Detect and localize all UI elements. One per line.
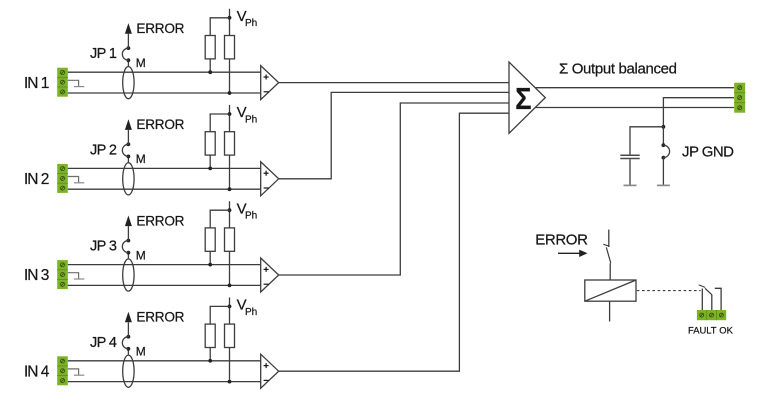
svg-text:M: M: [136, 152, 146, 166]
svg-text:M: M: [136, 56, 146, 70]
wire summing amp output - (bottom, balanced): [535, 107, 734, 109]
wire op-amp 1 output to summing amp input 1: [279, 82, 509, 84]
node V_Ph junction (channel 3): [228, 208, 232, 212]
terminal block IN 3 (3-pole, green): [57, 260, 68, 289]
ERROR arrow (channel 4): [125, 312, 132, 323]
jumper JP 3 (open link, arc + pins): [122, 239, 130, 255]
wire right resistor to IN 2- wire: [229, 155, 231, 189]
pin - (inverting, channel 3): [264, 283, 269, 285]
svg-text:JP 4: JP 4: [90, 335, 117, 351]
terminal block IN 2 (3-pole, green): [57, 164, 68, 193]
wire left resistor to IN 1+ wire: [209, 59, 211, 72]
capacitor (output ground coupling): [620, 155, 639, 158]
wire capacitor to ground: [629, 159, 631, 185]
svg-text:ERROR: ERROR: [136, 117, 184, 132]
svg-text:JP 2: JP 2: [90, 142, 117, 158]
ground (signal ground on IN 4 middle pin): [68, 369, 85, 375]
svg-text:OK: OK: [719, 325, 733, 336]
resistor (phantom feed, channel 4, right): [225, 324, 235, 347]
wire IN 1+ (top) from terminal to op-amp: [68, 71, 261, 73]
wire right resistor to IN 4- wire: [229, 348, 231, 382]
ERROR arrow (relay, pointing right): [558, 250, 588, 257]
svg-text:JP GND: JP GND: [682, 144, 734, 161]
pin - (inverting, channel 4): [264, 379, 269, 381]
wire jumper JP 2 to choke: [127, 156, 129, 162]
wire jumper JP 1 to choke: [127, 60, 129, 66]
wire IN 3- (bottom) from terminal to op-amp: [68, 284, 261, 286]
wire V_Ph to left resistor (channel 3): [210, 210, 229, 228]
wire mechanical link (dashed, relay to contact): [637, 290, 701, 292]
op-amp buffer (channel 2): [261, 162, 279, 196]
resistor (phantom feed, channel 2, left): [205, 132, 215, 155]
pin - (inverting, channel 1): [264, 91, 269, 93]
ground (signal ground on IN 3 middle pin): [68, 273, 85, 279]
wire V_Ph to left resistor (channel 2): [210, 114, 229, 132]
svg-text:JP 3: JP 3: [90, 239, 117, 255]
node V_Ph junction (channel 2): [228, 112, 232, 116]
wire IN 1- (bottom) from terminal to op-amp: [68, 92, 261, 94]
svg-text:Ph: Ph: [245, 211, 257, 222]
node junction right resistor / IN 2-: [228, 187, 232, 191]
svg-text:M: M: [136, 248, 146, 262]
ERROR arrow (channel 1): [125, 23, 132, 34]
svg-text:Σ: Σ: [515, 82, 531, 116]
label V_Ph (channel 1): [237, 8, 258, 29]
net V_Ph vertical (channel 2): [229, 105, 231, 132]
transformer M1 (longitudinal choke ellipse): [123, 67, 134, 99]
svg-text:JP 1: JP 1: [90, 46, 117, 62]
node junction left resistor / IN 1+: [208, 70, 212, 74]
svg-text:IN 2: IN 2: [24, 171, 49, 188]
relay K1 (coil box with diagonal): [585, 280, 636, 301]
svg-text:ERROR: ERROR: [136, 213, 184, 228]
wire left resistor to IN 2+ wire: [209, 155, 211, 168]
svg-text:ERROR: ERROR: [136, 310, 184, 325]
svg-text:IN 1: IN 1: [24, 75, 49, 92]
terminal block IN 4 (3-pole, green): [57, 356, 68, 385]
wire IN 4- (bottom) from terminal to op-amp: [68, 381, 261, 383]
resistor (phantom feed, channel 1, left): [205, 36, 215, 59]
wire junction to jumper JP GND: [662, 127, 664, 146]
terminal block FAULT/OK (3-pole, green, horizontal): [697, 310, 726, 320]
net V_Ph vertical (channel 3): [229, 201, 231, 228]
wire op-amp 3 output to summing amp input 3: [279, 103, 509, 275]
wire junction to capacitor: [630, 127, 663, 155]
svg-text:FAULT: FAULT: [688, 325, 717, 336]
label V_Ph (channel 2): [237, 104, 258, 125]
wire switch to relay coil: [609, 263, 611, 280]
resistor (phantom feed, channel 1, right): [225, 36, 235, 59]
op-amp buffer (channel 3): [261, 258, 279, 292]
wire V_Ph to left resistor (channel 1): [210, 18, 229, 36]
wire op-amp 4 output to summing amp input 4: [279, 113, 509, 371]
wire relay drive (top): [608, 230, 610, 247]
transformer M2 (longitudinal choke ellipse): [123, 163, 134, 195]
wire jumper JP 4 to ERROR arrow: [127, 322, 129, 336]
wire jumper JP 2 to ERROR arrow: [127, 130, 129, 144]
wire summing amp output + (top, balanced): [535, 87, 734, 89]
svg-text:IN 3: IN 3: [24, 267, 49, 284]
pin + (non-inverting, channel 4): [264, 365, 269, 367]
node junction left resistor / IN 3+: [208, 263, 212, 267]
node junction right resistor / IN 3-: [228, 284, 232, 288]
relay changeover contact (FAULT/OK): [699, 285, 721, 310]
node junction left resistor / IN 2+: [208, 167, 212, 171]
ground (signal ground on IN 1 middle pin): [68, 80, 85, 86]
wire left resistor to IN 4+ wire: [209, 348, 211, 361]
node junction capacitor / JP GND: [662, 125, 666, 129]
label V_Ph (channel 3): [237, 200, 258, 221]
wire left resistor to IN 3+ wire: [209, 251, 211, 264]
wire jumper JP 3 to choke: [127, 253, 129, 259]
node junction right resistor / IN 4-: [228, 380, 232, 384]
svg-text:IN 4: IN 4: [24, 363, 50, 380]
wire output middle pin to JP GND: [663, 98, 734, 127]
wire op-amp 2 output to summing amp input 2: [279, 92, 509, 178]
wire jumper JP GND to ground: [662, 158, 664, 185]
pin + (non-inverting, channel 1): [264, 76, 269, 78]
wire relay coil return (bottom): [609, 301, 611, 321]
svg-text:ERROR: ERROR: [136, 21, 184, 36]
wire IN 2+ (top) from terminal to op-amp: [68, 167, 261, 169]
jumper JP 2 (open link, arc + pins): [122, 142, 130, 158]
transformer M3 (longitudinal choke ellipse): [123, 259, 134, 291]
node junction right resistor / IN 1-: [228, 91, 232, 95]
svg-text:Ph: Ph: [245, 114, 257, 125]
svg-text:Σ Output balanced: Σ Output balanced: [559, 60, 677, 77]
wire right resistor to IN 1- wire: [229, 59, 231, 93]
svg-text:Ph: Ph: [245, 18, 257, 29]
wire IN 4+ (top) from terminal to op-amp: [68, 360, 261, 362]
label V_Ph (channel 4): [237, 297, 258, 318]
jumper JP 4 (open link, arc + pins): [122, 335, 130, 351]
terminal block output (3-pole, green): [734, 83, 745, 113]
resistor (phantom feed, channel 3, left): [205, 228, 215, 251]
node V_Ph junction (channel 1): [228, 16, 232, 20]
wire jumper JP 4 to choke: [127, 349, 129, 355]
op-amp buffer (channel 1): [261, 66, 279, 100]
svg-text:Ph: Ph: [245, 307, 257, 318]
wire V_Ph to left resistor (channel 4): [210, 306, 229, 324]
wire IN 2- (bottom) from terminal to op-amp: [68, 188, 261, 190]
jumper JP GND (open link, arc + pins): [662, 143, 670, 159]
ground (signal ground on IN 2 middle pin): [68, 177, 85, 183]
ground (capacitor): [624, 184, 637, 186]
transformer M4 (longitudinal choke ellipse): [123, 355, 134, 387]
jumper JP 1 (open link, arc + pins): [122, 46, 130, 62]
node junction left resistor / IN 4+: [208, 359, 212, 363]
resistor (phantom feed, channel 2, right): [225, 132, 235, 155]
wire right resistor to IN 3- wire: [229, 251, 231, 285]
node V_Ph junction (channel 4): [228, 305, 232, 309]
op-amp U5 summing amplifier: [509, 62, 545, 133]
svg-text:ERROR: ERROR: [535, 231, 588, 248]
pin + (non-inverting, channel 3): [264, 268, 269, 270]
net V_Ph vertical (channel 1): [229, 9, 231, 36]
wire jumper JP 3 to ERROR arrow: [127, 226, 129, 240]
ground (JP GND): [657, 184, 670, 186]
wire IN 3+ (top) from terminal to op-amp: [68, 264, 261, 266]
net V_Ph vertical (channel 4): [229, 297, 231, 324]
op-amp buffer (channel 4): [261, 354, 279, 388]
resistor (phantom feed, channel 4, left): [205, 324, 215, 347]
wire jumper JP 1 to ERROR arrow: [127, 34, 129, 48]
switch contact (error detect, normally open): [603, 244, 610, 263]
terminal block IN 1 (3-pole, green): [57, 68, 68, 97]
ERROR arrow (channel 2): [125, 119, 132, 130]
svg-text:M: M: [136, 345, 146, 359]
resistor (phantom feed, channel 3, right): [225, 228, 235, 251]
ERROR arrow (channel 3): [125, 216, 132, 227]
pin + (non-inverting, channel 2): [264, 172, 269, 174]
pin - (inverting, channel 2): [264, 187, 269, 189]
